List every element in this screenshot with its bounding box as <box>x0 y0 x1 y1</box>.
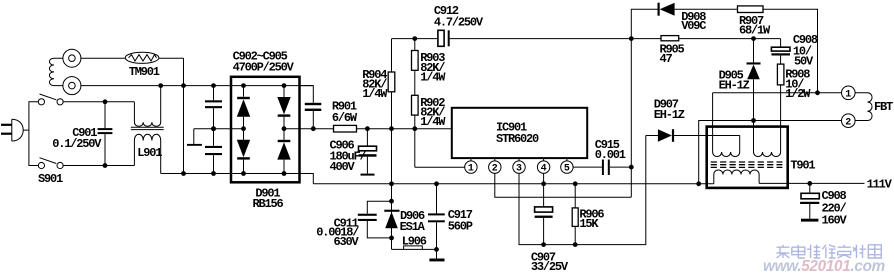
svg-text:L901: L901 <box>137 146 162 160</box>
diode D901b (left bottom, down) <box>237 129 250 174</box>
resistor R907 <box>738 6 764 13</box>
node x631 top line <box>629 36 634 41</box>
snubber cap C905 right of bridge <box>300 86 322 129</box>
svg-text:560P: 560P <box>448 220 473 234</box>
wire TM901 to corner <box>159 57 184 59</box>
pin 3 <box>513 158 525 175</box>
resistor R908 <box>777 64 784 152</box>
FBT terminal 2 <box>842 114 856 128</box>
diode D901d (right bottom, up) <box>277 129 290 174</box>
resistor R904 <box>388 39 395 129</box>
svg-text:2: 2 <box>492 164 498 175</box>
wire jack to TM901 <box>81 57 126 59</box>
node rail x391 <box>389 181 394 186</box>
node FBT1/top line <box>815 90 820 95</box>
node top rail / C901 <box>103 99 108 104</box>
svg-text:TM901: TM901 <box>129 65 160 79</box>
svg-text:1/2W: 1/2W <box>785 87 811 101</box>
node bridge top left <box>241 83 246 88</box>
chassis ground bar <box>187 144 202 146</box>
svg-text:47: 47 <box>660 52 673 66</box>
svg-text:1/4W: 1/4W <box>420 115 446 129</box>
FBT coil <box>855 93 872 121</box>
capacitor C911 <box>358 201 392 238</box>
diode D908 <box>658 3 675 16</box>
node R906 bottom <box>573 242 578 247</box>
wire FBT1 line <box>713 92 842 94</box>
node C911 bottom <box>389 236 394 241</box>
pin 5 <box>561 158 573 175</box>
thermistor TM901 <box>125 52 159 63</box>
node R906 top rail <box>573 181 578 186</box>
node lower rail x213.5 <box>211 171 216 176</box>
wire long vertical x183.5 <box>183 58 185 173</box>
capacitor C908 10/50V <box>771 39 790 65</box>
node x183.5 on ac line <box>181 83 186 88</box>
diode D906 <box>384 210 399 229</box>
capacitor C901 <box>98 102 113 166</box>
svg-text:EH-1Z: EH-1Z <box>654 108 685 122</box>
node C917/L906 <box>434 247 439 252</box>
node C915/D907 column <box>629 165 634 170</box>
wire 38 line right <box>631 38 780 40</box>
inductor L901 core <box>131 127 164 129</box>
svg-text:6/6W: 6/6W <box>332 111 358 125</box>
capacitor C904 (lower of filter column) <box>205 129 222 174</box>
svg-text:ES1A: ES1A <box>400 220 426 234</box>
watermark line 1 <box>777 245 790 258</box>
node L901 top right <box>158 83 163 88</box>
wire R902 to pin1 <box>415 166 465 168</box>
svg-text:1: 1 <box>468 164 474 175</box>
node C911 top <box>389 199 394 204</box>
wire pin3 bottom loop <box>519 136 646 245</box>
resistor R903 <box>412 39 419 96</box>
wire ground rail <box>313 183 714 185</box>
svg-text:STR6020: STR6020 <box>496 132 539 146</box>
svg-text:5: 5 <box>564 164 570 175</box>
wire vertical x631 <box>630 9 632 197</box>
svg-text:400V: 400V <box>330 160 356 174</box>
svg-text:15K: 15K <box>579 217 599 231</box>
svg-text:T901: T901 <box>790 158 815 172</box>
wire startup top line <box>392 38 438 40</box>
wire T901 primary left vertical <box>712 93 714 152</box>
AC plug P901 <box>1 119 29 141</box>
svg-text:4: 4 <box>541 164 547 175</box>
wire pin2 loop <box>495 173 632 197</box>
wire bottom rail to L901 <box>63 165 134 167</box>
switch S901 top pole <box>38 94 63 105</box>
capacitor C915 <box>602 160 631 176</box>
svg-text:33/25V: 33/25V <box>531 260 569 273</box>
diode D901c (right top, down) <box>277 86 290 129</box>
node R903 top <box>412 36 417 41</box>
capacitor C912 <box>438 30 631 46</box>
node bridge mid right <box>282 126 287 131</box>
wire pin5 to C915 <box>573 166 602 168</box>
pin 4 <box>537 158 549 175</box>
inductor L901 bottom winding <box>134 134 160 173</box>
node R902/B+ <box>412 126 417 131</box>
wire FBT2 line <box>699 121 842 184</box>
connector jack top <box>63 49 81 67</box>
pin 1 <box>465 158 477 175</box>
capacitor C906 <box>359 129 377 176</box>
svg-text:4.7/250V: 4.7/250V <box>434 16 484 30</box>
node lower rail x183.5 <box>181 171 186 176</box>
svg-text:V09C: V09C <box>681 19 706 33</box>
svg-text:1/4W: 1/4W <box>420 71 446 85</box>
wire D905 into transformer <box>753 121 755 153</box>
wire degauss bottom line <box>81 85 313 87</box>
svg-text:0.1/250V: 0.1/250V <box>52 137 102 151</box>
svg-text:160V: 160V <box>822 214 848 228</box>
node C917 rail <box>434 181 439 186</box>
capacitor C908 220/160V <box>800 183 819 221</box>
resistor R901 <box>334 125 357 132</box>
wire 111V line <box>759 182 864 184</box>
node bridge top right <box>282 83 287 88</box>
node filter mid <box>211 126 216 131</box>
svg-text:FBT: FBT <box>874 100 893 114</box>
connector jack bottom <box>63 77 81 95</box>
IC901 box <box>452 108 587 158</box>
svg-text:111V: 111V <box>867 177 893 191</box>
svg-text:S901: S901 <box>38 172 63 186</box>
node C906 <box>365 126 370 131</box>
svg-text:68/1W: 68/1W <box>739 24 771 38</box>
node C902 column on ac line <box>211 83 216 88</box>
T901 primary right winding <box>754 152 781 157</box>
switch S901 bottom pole <box>38 158 63 169</box>
resistor R905 <box>661 36 679 41</box>
degauss coil connector loop <box>49 58 62 85</box>
chassis ground stub at filter <box>193 129 195 144</box>
node B+ x313 <box>311 126 316 131</box>
svg-text:EH-1Z: EH-1Z <box>719 78 750 92</box>
svg-text:0.001: 0.001 <box>595 148 626 162</box>
bridge rectifier D901 box <box>231 77 300 183</box>
node pin4 rail <box>541 181 546 186</box>
wire R904 column below B+ <box>391 129 393 250</box>
svg-text:L906: L906 <box>402 235 427 249</box>
node bottom rail / C901 <box>103 163 108 168</box>
svg-text:3: 3 <box>516 164 522 175</box>
wire top feedback line <box>631 9 817 93</box>
node D905 top <box>751 36 756 41</box>
wire bridge minus segment <box>194 128 244 130</box>
node R904/B+ <box>389 126 394 131</box>
diode D901a (left top, up) <box>237 86 250 129</box>
diode D907 <box>646 129 740 142</box>
wire plug to switches <box>29 102 38 166</box>
inductor L901 top winding <box>134 86 160 127</box>
svg-text:4700P/250V: 4700P/250V <box>233 60 295 74</box>
node FBT2 rail <box>696 181 701 186</box>
node bridge bottom right <box>282 171 287 176</box>
capacitor C902 (upper of filter column) <box>205 86 222 129</box>
transformer T901 box <box>707 127 788 188</box>
wire pin4 to rail <box>543 173 545 184</box>
node C907 bottom <box>541 242 546 247</box>
wire B+ to R901 <box>284 128 334 130</box>
FBT terminal 1 <box>842 86 856 100</box>
resistor R902 <box>412 95 419 167</box>
node bridge mid left <box>241 126 246 131</box>
diode D905 <box>747 39 761 121</box>
svg-text:1/4W: 1/4W <box>362 87 388 101</box>
svg-text:2: 2 <box>845 117 851 128</box>
T901 core dashes <box>711 162 783 167</box>
resistor R906 <box>572 184 578 245</box>
svg-text:630V: 630V <box>334 235 360 249</box>
wire R901 to IC <box>357 128 452 130</box>
node D905/FBT2 <box>751 118 756 123</box>
svg-text:RB156: RB156 <box>253 197 284 211</box>
node bridge bottom left <box>241 171 246 176</box>
wire lower rail <box>161 174 314 184</box>
svg-text:1: 1 <box>845 89 851 100</box>
pin 2 <box>489 158 501 175</box>
svg-text:www.520101.com: www.520101.com <box>763 258 885 273</box>
T901 secondary winding <box>714 170 759 184</box>
node C908b <box>807 181 812 186</box>
capacitor C907 <box>535 184 553 245</box>
inductor L906 <box>392 246 437 250</box>
wire top rail to L901 <box>63 101 134 103</box>
capacitor C917 <box>428 184 445 262</box>
T901 primary left winding <box>713 136 740 157</box>
